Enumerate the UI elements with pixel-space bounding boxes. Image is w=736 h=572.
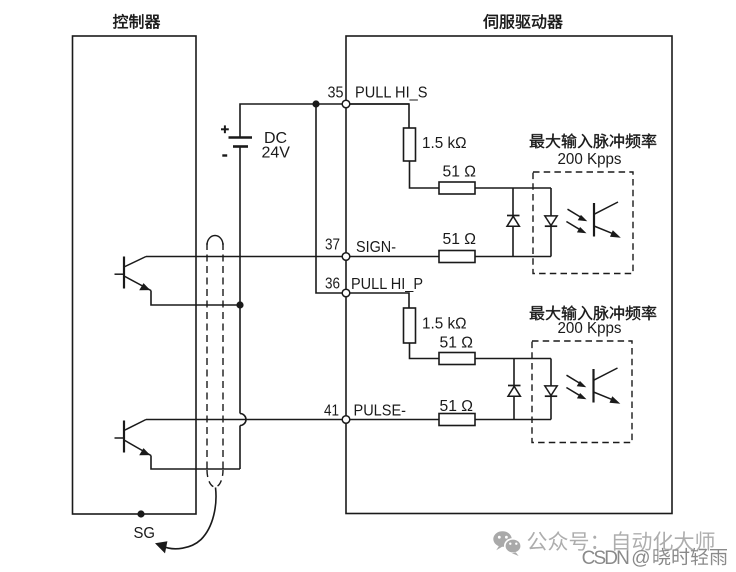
shield cable top arc xyxy=(207,236,223,246)
svg-text:1.5 kΩ: 1.5 kΩ xyxy=(422,316,467,333)
wire hop to emitter 2 return corner xyxy=(239,426,241,470)
optocoupler U1 light arrows xyxy=(566,209,587,233)
diode D2 (points up) xyxy=(508,386,521,397)
controller box outline xyxy=(73,36,197,514)
servo drive box outline xyxy=(346,36,672,514)
label max input pulse frequency 1 xyxy=(530,133,656,148)
wire top rail down to pin 36 xyxy=(316,104,346,293)
wire diode D2 branch xyxy=(513,359,515,420)
wire R5 to opto LED 2 top xyxy=(475,358,551,360)
wire R1 to R2 xyxy=(410,161,440,188)
watermark text shadow xyxy=(655,549,729,567)
pin 35 terminal xyxy=(342,100,350,108)
arrow shield to SG xyxy=(155,488,216,554)
svg-text:PULSE-: PULSE- xyxy=(354,403,407,420)
wire R4 to R5 xyxy=(410,343,440,359)
label 控制器 (controller title) xyxy=(113,14,160,29)
resistor R2 51 Ohm xyxy=(439,182,475,194)
wire pin 35 to R1 xyxy=(346,103,409,105)
wire hop over PULSE- line xyxy=(240,414,246,426)
diode D1 (points up) xyxy=(507,216,520,227)
wire battery positive to pin 35 rail xyxy=(240,104,409,138)
svg-text:37: 37 xyxy=(325,237,340,254)
opto LED diode 2 (points down) xyxy=(545,386,557,396)
svg-text:PULL HI_P: PULL HI_P xyxy=(351,276,423,293)
resistor R6 51 Ohm xyxy=(439,414,475,426)
svg-text:PULL HI_S: PULL HI_S xyxy=(355,84,428,101)
svg-text:CSDN @: CSDN @ xyxy=(582,548,651,569)
optocoupler U2 light arrows xyxy=(566,375,586,399)
value label DC 24V xyxy=(262,130,291,162)
wire diode D1 branch xyxy=(512,188,514,257)
shield cable left dashed line xyxy=(206,243,208,472)
svg-text:41: 41 xyxy=(324,403,339,420)
resistor R3 51 Ohm xyxy=(439,251,475,263)
watermark text CSDN xyxy=(582,548,652,570)
transistor Q2 xyxy=(115,420,152,456)
svg-text:24V: 24V xyxy=(262,145,291,162)
wire opto LED 2 branch xyxy=(550,359,552,420)
watermark text 公众号：自动化大师 xyxy=(528,531,715,551)
wire battery negative junction to hop xyxy=(239,305,241,414)
battery plus sign xyxy=(221,125,229,133)
shield cable bottom arc xyxy=(207,470,223,487)
wire R2 to opto LED top xyxy=(475,187,551,189)
svg-text:51 Ω: 51 Ω xyxy=(443,231,477,248)
svg-text:1.5 kΩ: 1.5 kΩ xyxy=(422,135,467,152)
wire R3 to opto LED bottom xyxy=(475,256,551,258)
pin 37 terminal xyxy=(342,253,350,261)
optocoupler U1 phototransistor xyxy=(594,202,621,238)
watermark text 晓时轻雨 xyxy=(653,548,727,566)
wire pin 36 to R4 xyxy=(346,293,409,308)
resistor R5 51 Ohm xyxy=(439,353,475,365)
svg-text:SIGN-: SIGN- xyxy=(356,239,396,256)
svg-text:51 Ω: 51 Ω xyxy=(440,398,474,415)
svg-text:SG: SG xyxy=(134,525,156,542)
junction top rail to PULL HI_P xyxy=(312,100,319,107)
label max input pulse frequency 2 xyxy=(530,305,656,320)
svg-text:200 Kpps: 200 Kpps xyxy=(558,151,622,168)
svg-text:35: 35 xyxy=(328,84,344,101)
wire Q2 emitter return xyxy=(151,456,240,470)
svg-text:36: 36 xyxy=(325,275,340,292)
watermark text 晓时轻雨 highlight xyxy=(655,549,729,567)
node SG junction dot xyxy=(137,510,144,517)
battery B1 DC 24V plates xyxy=(229,138,253,147)
svg-text:51 Ω: 51 Ω xyxy=(443,164,477,181)
wire opto LED 1 branch xyxy=(550,188,552,257)
optocoupler U2 dashed box xyxy=(532,341,632,443)
wire PULSE- line from Q2 collector to R6 xyxy=(146,419,439,421)
svg-text:51 Ω: 51 Ω xyxy=(440,335,474,352)
wire R6 to opto LED 2 bottom xyxy=(475,419,551,421)
shield cable right dashed line xyxy=(222,243,224,472)
watermark wechat icon xyxy=(493,531,521,556)
junction Q1 emitter to battery negative xyxy=(236,301,243,308)
pin 41 terminal xyxy=(342,416,350,424)
optocoupler U2 phototransistor xyxy=(594,368,621,404)
optocoupler U1 dashed box xyxy=(533,172,633,274)
wire Q1 emitter return xyxy=(151,291,240,306)
battery minus sign xyxy=(222,154,227,156)
wire SIGN- line from Q1 collector to R3 xyxy=(146,256,439,258)
pin 36 terminal xyxy=(342,289,350,297)
transistor Q1 xyxy=(115,257,152,291)
wire battery negative down to emitter junction xyxy=(239,147,241,306)
svg-text:200 Kpps: 200 Kpps xyxy=(558,320,622,337)
resistor R1 1.5 kOhm vertical xyxy=(404,128,416,161)
label 伺服驱动器 (servo drive title) xyxy=(483,14,562,29)
opto LED diode 1 (points down) xyxy=(545,216,557,226)
resistor R4 1.5 kOhm vertical xyxy=(404,308,416,343)
